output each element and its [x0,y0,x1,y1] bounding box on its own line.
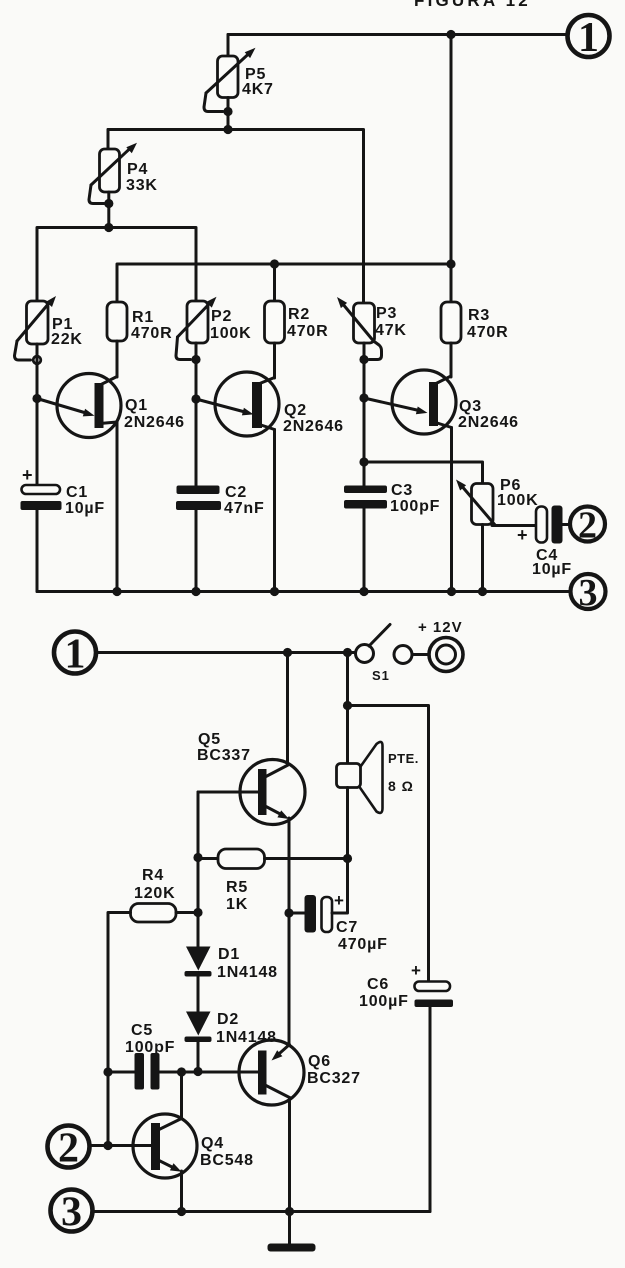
arrowhead Q3 emitter [416,407,428,415]
svg-text:100pF: 100pF [390,498,440,515]
junction Q1 emitter node [32,394,41,403]
svg-text:C6: C6 [367,976,389,993]
svg-text:10µF: 10µF [532,561,572,578]
svg-text:33K: 33K [126,177,158,194]
junction base/R5 [193,853,202,862]
junction Q3 emitter node [359,393,368,402]
transistor Q3 (UJT 2N2646) [392,370,456,434]
speaker label PTE 8 ohm [388,751,419,794]
Q5 label [197,731,251,764]
P5 value label [242,66,274,98]
junction rail/Q5 collector [283,648,292,657]
junction speaker node [343,854,352,863]
wire R4 right lead [176,911,198,914]
wire P3 bottom lead down [363,343,366,486]
svg-text:BC327: BC327 [307,1070,361,1087]
diode D2 (1N4148) [185,1012,212,1043]
wire P4 top lead [107,130,110,150]
P6 value label [497,477,538,509]
wire Q5 base [198,791,258,794]
resistor R4 [131,904,177,923]
svg-text:+: + [517,525,528,545]
svg-text:2: 2 [58,1126,79,1172]
svg-text:10µF: 10µF [65,500,105,517]
svg-text:8 Ω: 8 Ω [388,778,414,794]
svg-text:BC548: BC548 [200,1152,254,1169]
wire C2 bottom to bus [195,510,198,592]
svg-text:1: 1 [65,632,86,678]
potentiometer P6 (mirrored) [456,480,495,526]
transistor Q1 (UJT 2N2646) [57,374,121,438]
C7 value label [336,919,388,953]
wire Q4 emitter to bus [180,1171,183,1212]
junction speaker/C6 branch [343,701,352,710]
wire P6 wiper to C4 [492,524,536,527]
junction node2 line/left column [103,1141,112,1150]
C3 value label [390,482,440,515]
R4 value label [134,867,175,902]
svg-text:2N2646: 2N2646 [458,414,519,431]
svg-text:470R: 470R [467,324,508,341]
svg-text:3: 3 [579,572,598,614]
svg-text:FIGURA 12: FIGURA 12 [414,0,531,10]
junction bus/Q2 B1 [270,587,279,596]
resistor R2 [265,301,285,343]
P3 value label [375,305,407,339]
svg-text:3: 3 [61,1190,82,1236]
wire Q1 B1 to ground bus [116,422,119,592]
svg-text:470R: 470R [131,325,172,342]
svg-text:C2: C2 [225,484,247,501]
capacitor C4 (electrolytic) [517,506,563,546]
junction emitter/C7 [284,908,293,917]
svg-text:2: 2 [578,505,597,547]
wire top supply rail [228,33,568,36]
C5 value label [125,1022,175,1056]
svg-text:R4: R4 [142,867,164,884]
resistor R1 [107,302,127,341]
junction Q2 emitter node [191,394,200,403]
junction P5 bottom node [223,125,232,134]
R1 value label [131,309,172,342]
junction Q3 output node [359,457,368,466]
wire R5 right to speaker node [265,857,348,860]
wire P2 bottom lead to C2 [195,343,198,486]
ground symbol [268,1244,316,1252]
C1 value label [65,484,105,517]
capacitor C3 [344,486,387,509]
node 3 (upper right terminal) [571,572,606,614]
capacitor C1 (electrolytic) [21,465,62,510]
arrowhead Q1 emitter [83,409,95,417]
wire Q5 base chain down to D1 [197,792,200,947]
svg-text:Q5: Q5 [198,731,221,748]
junction bus/C3 [359,587,368,596]
wire R bias rail [117,264,451,302]
svg-text:+: + [22,465,33,485]
wire P4 bottom lead [107,192,110,228]
wire R2 bottom to Q2 B2 [273,343,276,378]
wire Q3 B1 to ground bus [450,428,453,592]
svg-text:470µF: 470µF [338,936,388,953]
speaker PTE [337,742,383,813]
junction P4 wiper tie [104,199,113,208]
svg-text:47nF: 47nF [224,500,265,517]
junction P2 wiper tie [191,355,200,364]
wire Q6 collector to ground [288,1098,291,1245]
node 2 (lower left terminal) [48,1126,90,1172]
svg-text:P4: P4 [127,161,148,178]
switch S1 [356,625,413,664]
svg-text:100pF: 100pF [125,1039,175,1056]
R5 value label [226,879,248,913]
svg-text:470R: 470R [287,323,328,340]
junction bus/Q3 B1 [447,587,456,596]
svg-text:100K: 100K [210,325,251,342]
Q3 label [458,398,519,431]
wire speaker feed [346,653,349,764]
wire C6 bottom to bus corner [429,1007,432,1212]
svg-text:2N2646: 2N2646 [124,414,185,431]
wire Q3 emitter [364,398,419,411]
svg-text:+ 12V: + 12V [418,619,463,636]
P4 value label [126,161,158,194]
wire S1 to +12V terminal [412,653,429,656]
resistor R3 [441,302,461,343]
potentiometer P4 [89,143,137,204]
resistor R5 [218,849,265,869]
junction P3 wiper tie [359,355,368,364]
svg-text:+: + [411,961,422,980]
potentiometer P2 [176,297,217,360]
junction Q4 emitter/bus [177,1207,186,1216]
C2 value label [224,484,265,517]
diode D1 (1N4148) [185,947,212,977]
node 2 (upper right terminal) [570,505,605,547]
wire R3 column from rail [450,35,453,265]
Q2 label [283,402,344,435]
junction R4/base chain [193,908,202,917]
svg-text:C3: C3 [391,482,413,499]
svg-text:P2: P2 [211,308,232,325]
wire R5 left lead [198,857,218,860]
svg-text:1: 1 [578,15,599,61]
potentiometer P1 [15,296,57,360]
wire P4 bottom to P1 and P2 tops [37,228,196,302]
wire node 3 bus [93,1210,431,1213]
wire R3 bottom to Q3 B2 [450,343,453,377]
svg-text:R3: R3 [468,307,490,324]
wire Q4 collector up [180,1072,183,1119]
wire Q2 emitter [196,399,245,412]
svg-text:D2: D2 [217,1011,239,1028]
transistor Q2 (UJT 2N2646) [215,372,279,436]
wire R1 bottom to Q1 B2 [116,341,119,377]
svg-text:Q6: Q6 [308,1053,331,1070]
P2 value label [210,308,251,342]
P1 value label [51,316,83,348]
junction rail/speaker [343,648,352,657]
junction bus/Q1 B1 [112,587,121,596]
wire P6 bottom to bus [481,525,484,592]
transistor Q6 (BC327 PNP) [239,1040,304,1105]
Q6 label [307,1053,361,1087]
svg-text:S1: S1 [372,668,390,683]
wire P5 top lead [227,35,230,57]
junction top rail / R3 column [446,30,455,39]
junction collector/bus [285,1207,294,1216]
wire D1 to D2 [197,977,200,1012]
wire Q5 collector lead [286,653,289,766]
svg-text:Q4: Q4 [201,1135,224,1152]
capacitor C7 (electrolytic) [289,859,348,933]
wire Q5 emitter to Q6 emitter [288,818,291,1045]
Q4 label [200,1135,254,1169]
junction P5 wiper tie [223,107,232,116]
svg-text:+: + [334,891,345,910]
transistor Q4 (BC548 NPN) [133,1114,197,1178]
wire node 1 to switch S1 [97,651,356,654]
svg-text:1K: 1K [226,896,248,913]
svg-text:47K: 47K [375,322,407,339]
potentiometer P5 [204,48,256,112]
D1 label [217,946,278,981]
svg-text:2N2646: 2N2646 [283,418,344,435]
svg-text:PTE.: PTE. [388,751,419,766]
wire speaker bottom [346,788,349,859]
node 1 (top right terminal) [568,15,610,61]
junction C5 left [103,1067,112,1076]
svg-text:D1: D1 [218,946,240,963]
wire P5 bottom to P4 and P3 columns [108,130,364,304]
wire ground bus (top section) [37,590,571,593]
node 3 (lower left terminal) [51,1190,93,1236]
junction P4 bottom node [104,223,113,232]
wire C3 bottom to bus [363,509,366,592]
wire P5 bottom lead [227,98,230,130]
svg-text:4K7: 4K7 [242,81,274,98]
node 1 (lower left terminal) [54,632,96,678]
wire Q2 B1 to ground bus [273,430,276,592]
svg-text:Q3: Q3 [459,398,482,415]
svg-text:R2: R2 [288,306,310,323]
wire Q1 emitter [37,399,86,414]
R2 value label [287,306,328,340]
wire C5 row (base line of Q6) [108,1071,258,1074]
svg-text:C5: C5 [131,1022,153,1039]
wire P1 bottom lead to C1 [36,344,39,486]
svg-text:1N4148: 1N4148 [216,1029,277,1046]
capacitor C2 [176,486,221,511]
svg-text:100µF: 100µF [359,993,409,1010]
capacitor C5 [135,1053,160,1090]
junction Q4 collector [177,1067,186,1076]
wire branch to C6 [348,706,429,982]
svg-text:R1: R1 [132,309,154,326]
junction D2 bottom [193,1067,202,1076]
D2 label [216,1011,277,1046]
arrowhead Q2 emitter [242,408,254,416]
R3 value label [467,307,508,341]
svg-text:100K: 100K [497,492,538,509]
C6 value label [359,976,409,1010]
wire C4 to node 2 [563,523,571,526]
wire Q3 output to P6 top [364,462,483,484]
wire left column to node 2 line [107,1072,110,1146]
junction R3 top [446,259,455,268]
Q1 label [124,397,185,431]
svg-text:C1: C1 [66,484,88,501]
wire D2 to base line of Q6 [197,1042,200,1072]
transistor Q5 (BC337 NPN) [240,760,305,825]
svg-text:Q1: Q1 [125,397,148,414]
svg-text:1N4148: 1N4148 [217,964,278,981]
svg-text:120K: 120K [134,885,175,902]
svg-text:P3: P3 [376,305,397,322]
svg-text:Q2: Q2 [284,402,307,419]
svg-text:BC337: BC337 [197,747,251,764]
potentiometer P3 (mirrored) [337,297,382,360]
junction P1 wiper tie (small ring) [33,356,41,364]
wire node 2 to Q4 base [90,1144,152,1147]
+12V terminal [429,638,463,672]
C4 value label [532,547,572,578]
svg-text:R5: R5 [226,879,248,896]
wire R4 left lead down left column [108,913,131,1073]
wire C1 bottom to bus [36,510,39,592]
junction bus/P6 [478,587,487,596]
junction bus/C2 [191,587,200,596]
junction R2 top [270,259,279,268]
svg-text:C7: C7 [336,919,358,936]
svg-text:22K: 22K [51,331,83,348]
capacitor C6 (electrolytic) [411,961,453,1007]
